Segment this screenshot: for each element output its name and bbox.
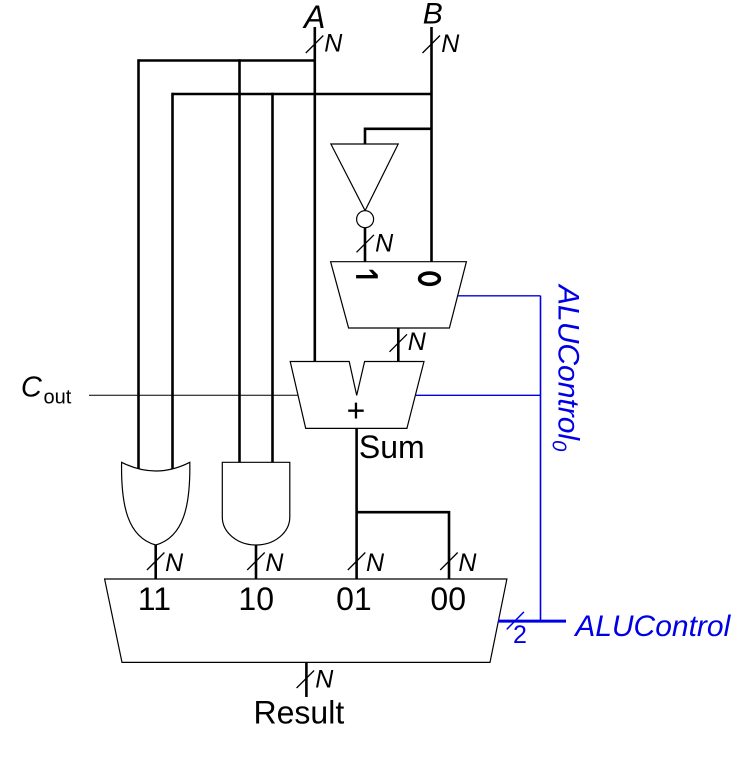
svg-text:ALUControl0: ALUControl0 xyxy=(548,283,585,451)
svg-text:2: 2 xyxy=(513,621,527,649)
svg-text:00: 00 xyxy=(430,581,466,617)
svg-text:+: + xyxy=(347,393,366,429)
svg-text:N: N xyxy=(408,328,427,356)
svg-text:A: A xyxy=(302,0,325,35)
svg-text:10: 10 xyxy=(238,581,274,617)
svg-text:B: B xyxy=(423,0,443,30)
svg-text:N: N xyxy=(366,549,385,577)
svg-text:ALUControl: ALUControl xyxy=(573,610,731,643)
svg-text:N: N xyxy=(441,30,460,58)
svg-text:N: N xyxy=(265,549,284,577)
svg-text:N: N xyxy=(324,30,343,58)
svg-text:N: N xyxy=(165,549,184,577)
svg-text:01: 01 xyxy=(336,581,372,617)
svg-text:N: N xyxy=(375,230,394,258)
svg-text:C: C xyxy=(21,372,43,404)
svg-text:11: 11 xyxy=(138,581,171,617)
svg-text:N: N xyxy=(315,665,334,693)
svg-text:N: N xyxy=(458,549,477,577)
svg-text:out: out xyxy=(44,386,72,408)
svg-text:Sum: Sum xyxy=(359,429,425,465)
svg-text:Result: Result xyxy=(254,695,345,731)
